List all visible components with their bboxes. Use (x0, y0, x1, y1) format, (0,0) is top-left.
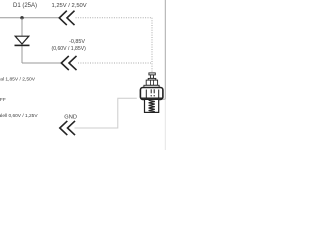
svg-text:D1 (25A): D1 (25A) (13, 3, 37, 9)
svg-text:rial 1,85V / 2,50V: rial 1,85V / 2,50V (0, 77, 36, 83)
svg-text:1,25V / 2,50V: 1,25V / 2,50V (52, 3, 87, 9)
svg-text:(0,60V / 1,85V): (0,60V / 1,85V) (52, 46, 87, 52)
svg-text:GND: GND (64, 115, 77, 121)
svg-text:-0,85V: -0,85V (69, 39, 85, 45)
svg-text:ralell 0,60V / 1,25V: ralell 0,60V / 1,25V (0, 113, 38, 119)
svg-text:OFF: OFF (0, 97, 6, 103)
